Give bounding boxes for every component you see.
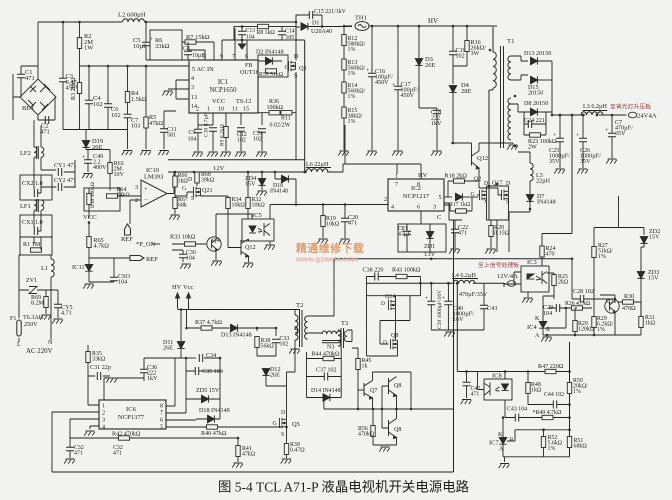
wire Q5 source [286,427,288,443]
wire R52 [543,430,545,457]
node fb1 [241,25,244,28]
transistor Q14 mosfet [389,300,396,310]
gnd ground C16 [366,151,377,156]
wire IC2 pin5 [444,196,452,198]
resistor R50 [567,383,571,394]
wire diode to Q2 gate [463,196,479,198]
wire C7 [611,115,613,158]
wire IC2 vert left [344,125,346,164]
wire C41 [483,283,485,330]
wire C9 [197,133,199,151]
inductor L6 [306,169,328,172]
capacitor C36 [140,369,148,372]
gnd ground C42 [461,400,472,405]
node y371 ic8 [504,370,507,373]
resistor R34 [226,198,230,209]
connector 24V output [624,112,637,118]
resistor R8 [258,24,269,28]
capacitor C11 [160,129,168,132]
wire C49 [87,150,89,173]
node D18 drop [295,203,298,206]
wire D7 down [509,202,530,252]
wire bridge top [37,115,39,120]
wire C44 line [528,404,570,406]
transistor Q12 [472,151,480,169]
resistor R19 [321,216,325,227]
node C20 top [344,203,347,206]
wire D2 [258,60,282,62]
wire D13b out [238,328,277,336]
wire Q7 emitter [372,398,374,409]
node c33 top [256,327,259,330]
regulator IC7 [499,434,507,448]
box R1 [20,237,52,255]
wire IC6 pin2 [52,412,99,472]
opto IC5 internals [249,223,270,236]
resistor R35 [86,352,90,363]
resistor R41 [236,446,240,457]
wire IC6 pin5 [166,426,203,428]
capacitor C14 [278,31,286,34]
wire 12V rail [168,171,307,173]
resistor R63 [108,163,112,174]
wire C13 [241,27,243,41]
wire x570 column [569,342,571,457]
wire IC8 pins [478,372,506,418]
wire Q12 base [451,143,472,154]
node r2 top [78,21,81,24]
bridge rectifier BD1 [20,79,56,115]
wire Q1 source [295,72,297,160]
capacitor C17 electrolytic [394,86,402,89]
wire R56 [373,409,397,445]
resistor R12 [342,35,346,46]
wire L1 [50,255,52,290]
capacitor C16 electrolytic [368,73,376,76]
wire IC10 out [167,172,174,194]
filter LF2 [34,146,44,159]
gnd ground ZD4 [256,191,267,196]
regulator IC11 [85,261,93,275]
wire right loop vert [453,252,455,472]
wire IC6 top [104,378,144,400]
wire C39 [430,283,432,330]
wire C6 [107,66,109,130]
wire 13V rail [334,258,572,260]
wire bottom rail [52,471,454,473]
wire R20 [488,220,492,248]
diode D13b [231,324,238,331]
node ic6 c34 [219,357,222,360]
wire C28 [572,259,615,303]
resistor R48 [526,383,530,394]
diode D2 [266,57,273,64]
zener ZD4 [258,179,265,186]
wire ZD5 [186,371,220,399]
wire R36R11 row [258,112,296,114]
wire AC N [48,255,51,340]
gnd ground R39 [281,459,292,464]
node y115 b [559,114,562,117]
capacitor C41 electrolytic [480,305,488,308]
capacitor CY2 [58,183,61,191]
wire ZV1 [19,289,51,291]
wire T2 sec right [308,259,334,333]
resistor R5 [144,117,148,128]
node y66 b [107,65,110,68]
wire C38 [367,276,397,278]
wire C34 right [204,358,220,419]
node HV5 [466,25,469,28]
wire IC6 pin3 [70,419,99,438]
zener ZD2 [640,237,647,244]
node R49 right [568,416,571,419]
wire C31 [88,375,110,377]
opto IC3 box [521,266,549,292]
node HV3 [418,25,421,28]
wire C1 leads [21,66,38,97]
wire C36 [144,358,181,381]
wire L5 [518,152,530,194]
capacitor C7 electrolytic [608,133,616,136]
diode D3 [415,59,422,66]
capacitor C12 [237,128,245,131]
capacitor C5 [142,42,150,45]
gnd ground CY5 [52,319,63,324]
node y115 a [551,114,554,117]
wire IC2 pin8 up [397,164,421,179]
wire IC6 pin8 [166,358,181,406]
wire IC7 K [502,418,504,435]
gnd ground C49 [82,174,93,179]
wire L6 right [327,164,343,172]
capacitor C42 [463,382,471,385]
wire Q7 base [358,389,364,391]
node c42 top [465,370,468,373]
capacitor C1 [17,74,25,77]
wire C22 [444,203,462,248]
node c35 [185,357,188,360]
varistor ZV1 [29,287,37,294]
opto IC8 box [484,379,512,400]
wire T2 primary top [294,310,296,347]
wire R37 line [187,310,230,329]
node 12V e [274,171,277,174]
wire CX2 [34,175,41,193]
gnd ground R20 [485,249,496,254]
wire R69 [45,290,47,314]
wire C11 [164,111,176,149]
arrow HV up [176,293,180,309]
inductor L4 [453,280,475,283]
gnd ground C20 [339,239,350,244]
resistor R15 [342,107,346,118]
wire R66 [174,172,176,196]
capacitor C6 [104,104,112,107]
wire C14 [281,27,283,41]
wire Q4 [216,214,252,260]
resistor R29b [592,317,596,328]
wire CY5 [51,290,58,318]
resistor R31 [639,317,643,328]
wire L4 underline [452,278,478,280]
gnd ground IC1 pin [162,91,173,96]
wire R24 [542,234,572,267]
capacitor C39 electrolytic [427,301,435,304]
wire AC L [19,255,22,342]
capacitor CX2 [34,189,37,197]
diode D13 [531,57,538,64]
wire Q8 gate link [380,296,410,344]
gnd ground near T1 [507,145,518,150]
resistor R1 [31,248,42,252]
resistor R68 [195,172,199,183]
wire R41 [237,438,239,462]
wire IC8 bottom rail [503,457,570,462]
wire Q21 source [201,196,229,198]
resistor R14 [342,82,346,93]
node rail a [419,282,422,285]
wire IC8 top rail [457,284,569,372]
wire IC6 pin4 [90,426,99,429]
node c3 top [62,21,65,24]
REF arrow [130,256,144,261]
node rail22 c15 [295,21,298,24]
wire R7 [182,42,214,60]
diode D12 [262,369,269,376]
resistor R43 [396,274,407,278]
transistor Q7 [364,381,373,400]
wire HV rail [369,25,497,27]
wire C3 [62,22,64,130]
zener ZD1 [426,232,433,239]
node hvvcc [180,308,183,311]
resistor R39 [284,444,288,455]
gnd ground R19 [317,239,328,244]
node rail c [447,282,450,285]
wire C25 [559,115,561,168]
wire C20 [344,205,346,239]
wire IC7 A [502,448,504,457]
node rail b [430,282,433,285]
wire IC3 left [504,272,521,287]
wire C35 [186,358,220,371]
node y427 q5 [285,426,288,429]
wire bridge left [13,74,20,120]
wire D15 out [538,79,553,81]
diode D4 [449,86,456,93]
resistor R69 [44,297,48,308]
wire top rail left [38,21,296,23]
wire R5 [145,66,147,149]
capacitor C9 [194,129,202,132]
capacitor C3 [59,78,67,81]
wire R4 [127,66,129,114]
node base rail d [395,408,398,411]
wire D3 [418,26,420,108]
wire R9 [225,138,227,152]
node r429 a [542,429,545,432]
wire R12 chain [344,26,352,150]
wire D14 row [307,398,342,410]
wire R23 [524,134,546,136]
wire CSO [113,258,115,282]
node rail d [456,282,459,285]
capacitor CY1 [58,168,61,176]
capacitor C26 electrolytic [579,138,587,141]
diode D18b [208,415,215,422]
wire CY2 [41,186,75,188]
connector 12V output [503,281,516,287]
node y335 b [574,334,577,337]
wire D8 [511,104,552,140]
gnd ground Q12 lower [243,263,254,268]
wire rail2 [80,65,190,67]
wire R19 [322,205,324,239]
transformer T1 [493,46,511,148]
transformer T3 [338,328,347,348]
resistor R55 [266,69,277,73]
wire D11 [180,310,182,359]
capacitor C35 [195,367,198,375]
gnd ground C40 [444,332,455,337]
gnd ground R15 [338,151,349,156]
capacitor C20 [341,218,349,221]
node out1 [559,114,562,117]
gnd ground IC3 [522,298,533,303]
resistor R64 [107,194,118,198]
winding N3 [322,331,341,343]
gnd ground IC5 [264,245,275,250]
node r52 top [542,429,545,432]
resistor R26 [572,306,583,310]
wire R31 [640,279,642,336]
regulator IC4 [539,318,547,332]
node base rail b [372,408,375,411]
opto IC8 internals [485,383,509,396]
wire C32 [69,438,71,458]
resistor R10 [87,194,91,205]
capacitor C44 [553,401,556,409]
node out3 [582,114,585,117]
capacitor C18 [433,110,441,113]
wire R32 [247,172,249,219]
transistor Q4 [207,237,221,251]
filter LF1 [34,199,44,212]
capacitor C7a [124,114,132,117]
wire ZD2 down [641,243,644,272]
wire R29b [593,299,595,335]
resistor R9 [224,127,228,138]
wire R40 [203,426,283,428]
resistor R30 [623,300,634,304]
wire R48 [527,372,529,405]
gnd ground C26 [577,169,588,174]
wire Q2Q17 sources [487,199,509,252]
wire R67 [174,196,176,214]
wire IC10 in2 [130,200,141,224]
wire D11 to C34 [181,357,196,359]
wire C4 [88,66,90,130]
wire D18b [196,418,220,420]
wire C17 [397,26,399,150]
wire R26 [570,307,592,309]
wire C24 [524,112,546,135]
node drainrail [496,183,499,186]
node out2 [571,114,574,117]
wire Q8 upper base [382,386,389,428]
wire Q1 gate [287,65,290,67]
gnd ground under C11 [158,151,169,156]
resistor R56 [371,426,375,437]
zener ZD5 [202,395,209,402]
wire Q8 upper emitter [396,396,398,410]
node y115 f [611,114,614,117]
wire R38 C33 bottom [257,343,276,356]
resistor R45 [356,359,360,370]
inductor L2 [123,19,145,22]
node c44 right [568,403,571,406]
wire R18 [448,181,479,197]
resistor R33 [185,242,196,246]
gnd ground C51 [256,152,267,157]
gnd ground C12 [235,152,246,157]
wire Q12 lower [248,239,250,262]
wire IC7 R [507,430,570,441]
wire Q5 drain [286,372,288,419]
node IC7 K [502,416,505,419]
wire C37 [307,376,342,378]
diode D18 on rail [282,175,289,182]
node y66 d [145,65,148,68]
node 12V c [174,171,177,174]
gnd ground Q4 [211,261,222,266]
wire Q1 drain [296,27,300,61]
capacitor C22 [451,229,459,232]
node HV1 [371,25,374,28]
resistor R16 [465,41,469,52]
transistor Q8a mosfet [391,339,398,349]
capacitor C8 [184,51,192,54]
wire top rail to TH1 [308,26,352,28]
capacitor C25 electrolytic [556,138,564,141]
inductor L3 [581,112,603,115]
wire top rail drop [37,22,39,79]
op-amp IC1 NCP1650 box [189,60,258,113]
transistor Q17 mosfet [502,190,509,200]
wire Q21 gate [175,192,194,196]
gnd ground Q8c [379,447,390,452]
wire IC1 left pins [168,80,189,99]
gnd ground IC7 [499,464,510,469]
wire C21 ZD1 [407,211,430,252]
op-amp IC2 NCP1217 box [388,179,444,211]
gnd ground C9 [192,152,203,157]
wire T2 primary drain [287,347,296,373]
capacitor C4 [85,100,93,103]
wire R2 leads [79,22,81,66]
capacitor C29 [556,304,559,312]
wire loop x411 [410,372,412,409]
wire IC1 bottom rail [198,113,262,129]
node y172 a [303,171,306,174]
fuse F1 [17,320,21,336]
node VCC left [88,221,91,224]
wire gnd stub [489,143,513,144]
wire CY1 [41,160,75,188]
resistor R32 [246,198,250,209]
opto IC5 box [242,219,274,241]
